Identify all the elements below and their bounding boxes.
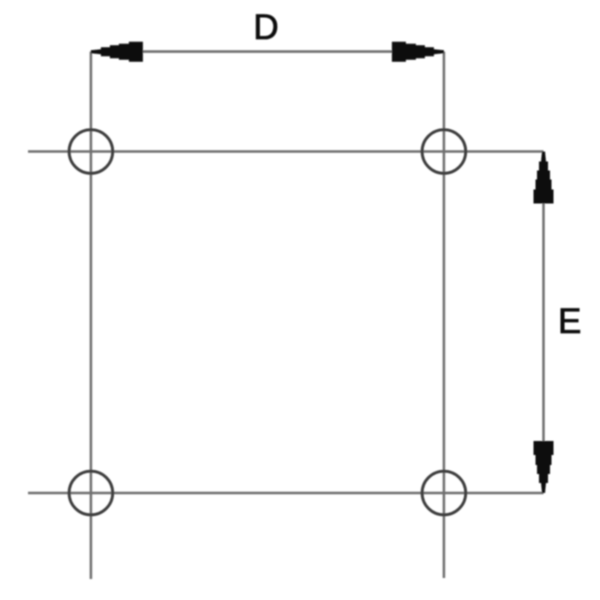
- dimension line E: [542, 152, 545, 494]
- hole circle top-right: [422, 130, 466, 174]
- wire: top horizontal centerline: [28, 150, 544, 153]
- arrowhead D left: [91, 42, 143, 62]
- arrowhead D right: [392, 42, 444, 62]
- dimension line D: [91, 50, 444, 53]
- svg-text:E: E: [558, 302, 581, 341]
- wire: bottom horizontal centerline: [28, 492, 544, 495]
- svg-text:D: D: [253, 8, 278, 47]
- wire: left vertical centerline: [90, 52, 93, 579]
- arrowhead E bottom: [534, 441, 554, 493]
- wire: right vertical centerline: [443, 52, 446, 578]
- hole circle bottom-right: [422, 471, 466, 515]
- hole circle bottom-left: [69, 471, 113, 515]
- arrowhead E top: [534, 152, 554, 204]
- hole circle top-left: [69, 130, 113, 174]
